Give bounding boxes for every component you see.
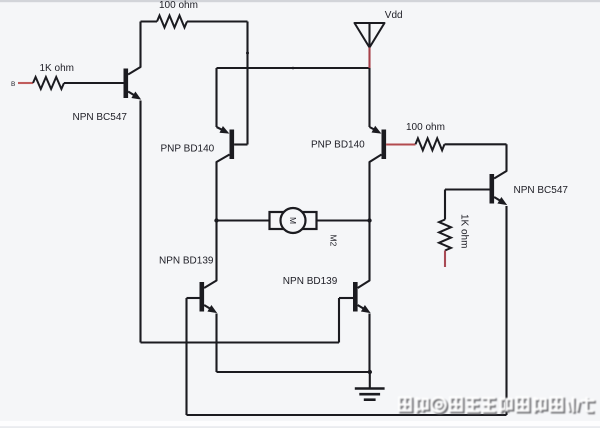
wire node B red stub	[18, 82, 33, 84]
resistor R4 1K ohm vertical	[439, 220, 451, 251]
wire Q4 base to R4	[444, 190, 446, 220]
wire to Q2 base	[234, 143, 247, 145]
wire R4 red stub (node A)	[444, 251, 446, 268]
wire Q6 emitter to ground node	[368, 314, 370, 373]
junction dot on R1 drop	[246, 52, 249, 55]
wire Q1 collector to R1	[141, 20, 158, 22]
junction dot on rail	[292, 67, 295, 70]
resistor R3 100 ohm	[416, 138, 445, 150]
wire Q3 base red segment	[386, 143, 415, 145]
wire R3 to Q4 collector	[445, 143, 507, 145]
Q3 emitter diagonal	[370, 127, 377, 131]
svg-text:1K ohm: 1K ohm	[459, 214, 470, 248]
Q6 emitter diagonal	[358, 305, 368, 311]
wire bottom run	[187, 414, 507, 416]
transistor Q3 PNP BD140 bar	[382, 130, 387, 160]
Q5 emitter arrow	[207, 305, 217, 313]
wire down to Q2 base	[246, 22, 248, 145]
Q1 emitter diagonal	[128, 92, 138, 98]
Q4 emitter arrow	[497, 197, 507, 205]
wire Q6 base riser	[338, 298, 340, 343]
svg-text:1K ohm: 1K ohm	[40, 63, 74, 74]
Vdd symbol center line	[368, 23, 370, 48]
wire ground stub	[369, 372, 371, 388]
Q5 base wire	[187, 297, 200, 299]
transistor Q5 NPN BD139 bar	[200, 282, 205, 312]
Q4 emitter diagonal	[494, 197, 504, 203]
svg-text:Vdd: Vdd	[385, 10, 403, 21]
Q2 collector wire down	[217, 155, 230, 274]
transistor Q4 NPN BC547 bar	[490, 174, 495, 204]
Q3 emitter wire from rail	[368, 68, 370, 127]
wire Q4 emitter down right side	[505, 206, 507, 415]
Q6 emitter arrow	[361, 305, 371, 313]
svg-text:100 ohm: 100 ohm	[159, 0, 198, 11]
Q2 emitter arrow (PNP)	[220, 126, 230, 134]
svg-text:M: M	[288, 217, 298, 224]
svg-text:NPN BC547: NPN BC547	[514, 185, 569, 196]
wire R2 to Q1 base	[64, 82, 124, 84]
motor M2	[270, 212, 317, 229]
wire R1 to node	[187, 20, 248, 22]
svg-text:PNP BD140: PNP BD140	[161, 144, 215, 155]
resistor R1 100 ohm	[157, 16, 187, 28]
Q2 emitter diagonal	[217, 127, 225, 131]
svg-text:B: B	[11, 81, 15, 88]
Q5 collector wire up	[204, 273, 216, 288]
Q4 collector wire	[494, 144, 506, 178]
Q4 base wire	[445, 188, 490, 190]
Q1 emitter arrow	[131, 92, 141, 100]
Q2 emitter wire from rail	[215, 68, 217, 127]
resistor R2 1K ohm	[33, 77, 64, 89]
svg-text:NPN BD139: NPN BD139	[159, 256, 214, 267]
svg-text:PNP BD140: PNP BD140	[311, 140, 365, 151]
Q5 emitter diagonal	[204, 305, 214, 311]
wire Vdd rail	[217, 67, 370, 69]
wire Vdd red segment	[368, 48, 370, 69]
junction node motor right	[367, 218, 371, 222]
Q3 emitter arrow (PNP)	[372, 126, 382, 134]
junction node ground	[368, 370, 372, 374]
power symbol Vdd	[355, 23, 385, 48]
Q1 collector wire up to R1	[128, 22, 140, 75]
wire Q1 emitter down	[139, 101, 141, 343]
transistor Q1 NPN BC547 bar	[124, 69, 129, 99]
transistor Q6 NPN BD139 bar	[353, 282, 358, 312]
wire Q5 emitter down	[215, 314, 217, 373]
Q6 collector wire up to motor node	[358, 221, 370, 289]
svg-text:NPN BC547: NPN BC547	[73, 112, 128, 123]
Q3 collector wire to motor node	[370, 155, 382, 221]
wire Q5 emitter to ground node	[217, 371, 370, 373]
svg-text:M2: M2	[329, 235, 339, 247]
svg-text:NPN BD139: NPN BD139	[283, 276, 338, 287]
ground symbol	[355, 387, 385, 390]
transistor Q2 PNP BD140 bar	[230, 130, 235, 160]
watermark 知乎 @电子工程师助理小七 (approximated strokes)	[399, 397, 596, 414]
wire across to Q6 base riser	[141, 341, 340, 343]
junction node motor left	[214, 218, 218, 222]
wire motor to node right	[317, 219, 370, 221]
wire node to motor	[217, 219, 270, 221]
wire Q5 base riser down	[185, 298, 187, 415]
svg-text:100 ohm: 100 ohm	[406, 122, 445, 133]
wire to Q6 base	[339, 297, 353, 299]
